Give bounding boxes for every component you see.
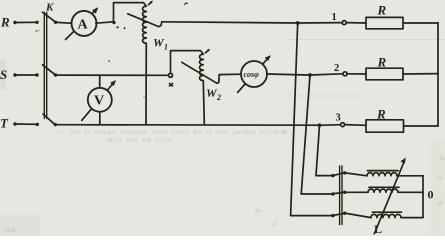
svg-text:K: K — [45, 2, 54, 14]
svg-text:cv le: cv le — [4, 227, 16, 234]
svg-text:3: 3 — [336, 113, 341, 124]
svg-text:A: A — [78, 18, 89, 33]
svg-text:lu: lu — [440, 155, 445, 162]
svg-text:2: 2 — [216, 93, 221, 102]
svg-text:vt: vt — [437, 175, 442, 182]
svg-text:T: T — [0, 116, 9, 131]
svg-text:R: R — [377, 3, 387, 18]
svg-text:0: 0 — [428, 188, 434, 202]
svg-text:cosφ: cosφ — [244, 70, 260, 79]
svg-text:L: L — [374, 222, 382, 236]
svg-text:uv: uv — [282, 128, 288, 135]
svg-text:V: V — [94, 94, 104, 109]
svg-text:sl: sl — [272, 221, 277, 228]
svg-text:1: 1 — [332, 12, 337, 23]
svg-text:R: R — [377, 55, 387, 70]
svg-text:1: 1 — [164, 43, 168, 52]
svg-text:el: el — [438, 200, 443, 207]
svg-text:S: S — [0, 67, 7, 82]
svg-text:R: R — [0, 15, 10, 30]
svg-text:R: R — [376, 107, 386, 122]
svg-text:tu: tu — [255, 207, 261, 214]
svg-text:2: 2 — [334, 63, 339, 74]
svg-text:ır. lüt fc vesme aluttuo core: ır. lüt fc vesme aluttuo core estvs ne v… — [58, 129, 286, 136]
